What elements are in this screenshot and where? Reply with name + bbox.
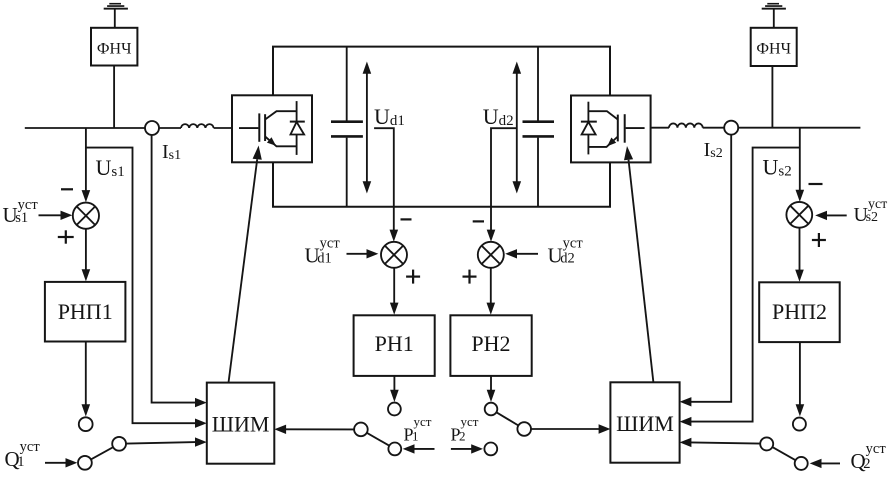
wire L2 to bus end	[703, 127, 861, 129]
switch SW-P2 arm	[496, 412, 518, 425]
low-pass filter FNCH2	[751, 28, 797, 66]
wire Q1 setpoint arrow	[45, 462, 67, 464]
svg-text:ФНЧ: ФНЧ	[97, 40, 132, 57]
wire S4 to RN2	[490, 268, 492, 305]
transistor VT1 emitter	[265, 137, 297, 147]
wire P1 setpoint arrow	[413, 448, 435, 450]
wire Is2 to PWM2 input 1	[691, 135, 732, 402]
wire Us2 branch to PWM2 input 2	[691, 148, 800, 422]
transistor VT2 gate bar	[624, 114, 626, 143]
wire P2 setpoint arrow	[451, 448, 473, 450]
node SW-Q2 common	[760, 437, 773, 450]
wire SW-Q1 to PWM1 input 3	[126, 442, 196, 444]
node Q1 setpoint contact	[78, 456, 92, 470]
plus sign at summing junction S1	[58, 230, 74, 243]
svg-text:РНП2: РНП2	[772, 299, 827, 324]
wire Is1 to PWM1 input 1	[152, 135, 196, 403]
node Q2 setpoint contact	[795, 457, 808, 470]
node RNP2 output contact	[793, 418, 806, 431]
wire AC bus 2	[651, 127, 669, 129]
wire Q2 setpoint arrow	[820, 462, 840, 464]
regulator RNP2	[759, 282, 840, 342]
wire gate drive SHIM2 to VT2	[629, 160, 654, 383]
wire gate drive SHIM1 to VT1	[229, 159, 258, 382]
svg-text:Us2: Us2	[763, 154, 792, 179]
wire GND1 to FNCH1	[114, 9, 116, 27]
summing junction S2	[786, 202, 812, 228]
wire Us1 measurement from bus	[85, 128, 87, 192]
node SW-P2 common	[517, 422, 531, 436]
PWM modulator block SHIM1	[207, 383, 274, 464]
IGBT module VT1	[232, 95, 312, 162]
voltage arrow Ud2	[516, 70, 518, 185]
wire S2 to RNP2	[799, 228, 801, 272]
svg-text:РН2: РН2	[471, 331, 510, 356]
svg-text:Uустs2: Uустs2	[854, 197, 888, 226]
summing junction S3	[381, 242, 407, 268]
svg-text:Ud1: Ud1	[374, 104, 405, 129]
svg-text:Us1: Us1	[96, 155, 125, 180]
wire P bus to PWM1 input 4	[285, 428, 354, 430]
diode VD1	[296, 101, 298, 155]
capacitor C1	[331, 120, 363, 123]
minus sign at summing junction S4	[473, 220, 484, 222]
wire Us1 branch to PWM1 input 2	[86, 148, 196, 424]
transistor VT2 collector	[588, 111, 617, 119]
wire RN2 output	[490, 376, 492, 392]
switch SW-Q2 arm	[772, 447, 795, 460]
node RNP1 output contact	[79, 417, 93, 431]
node RN1 output contact	[388, 403, 401, 416]
capacitor C2 lead bottom	[537, 138, 539, 207]
plus sign at summing junction S4	[463, 270, 477, 284]
svg-text:ШИМ: ШИМ	[616, 411, 674, 436]
wire SW-Q2 to PWM2 input 3	[691, 442, 761, 443]
plus sign at summing junction S3	[406, 270, 420, 284]
svg-text:Qуст1: Qуст1	[5, 439, 41, 471]
wire Ud1 tap to summing junction S3	[374, 128, 394, 232]
svg-text:Pуст2: Pуст2	[451, 414, 479, 444]
transistor VT2 emitter	[588, 137, 617, 147]
low-pass filter FNCH1	[91, 28, 137, 66]
capacitor C1 lead bottom	[346, 138, 348, 207]
minus sign at summing junction S1	[61, 188, 73, 190]
svg-text:Qуст2: Qуст2	[851, 441, 887, 473]
wire AC bus 1	[25, 127, 181, 129]
capacitor C2	[523, 120, 555, 123]
ground GND1 (top left)	[104, 3, 128, 10]
wire Us1 setpoint arrow into S1	[39, 214, 63, 216]
node P1 setpoint contact	[388, 443, 401, 456]
svg-text:Uустd1: Uустd1	[305, 236, 341, 268]
wire GND2 to FNCH2	[773, 9, 775, 27]
svg-text:Uустs1: Uустs1	[3, 197, 39, 227]
wire FNCH2 to AC bus 2	[771, 66, 773, 128]
wire S1 to RNP1	[85, 229, 87, 272]
voltage regulator RN1	[354, 315, 435, 376]
transistor VT1 gate bar	[258, 113, 260, 141]
converter DC-link rectangle	[273, 47, 610, 207]
wire FNCH1 to AC bus 1	[113, 66, 115, 129]
wire Us2 setpoint arrow into S2	[826, 214, 847, 216]
minus sign at summing junction S2	[809, 183, 823, 185]
svg-text:Is1: Is1	[162, 141, 181, 163]
svg-text:ШИМ: ШИМ	[212, 411, 270, 436]
svg-text:РН1: РН1	[375, 331, 414, 356]
wire Us2 measurement from bus	[799, 128, 801, 192]
node RN2 output contact	[485, 403, 498, 416]
wire P bus to PWM2 input 4	[531, 428, 599, 430]
transistor VT1 collector	[265, 111, 297, 119]
svg-text:Is2: Is2	[704, 139, 723, 161]
wire S3 to RN1	[393, 268, 395, 305]
switch SW-Q1 arm	[91, 447, 113, 459]
current sensor Is1	[145, 121, 159, 135]
node SW-P1 common	[354, 423, 368, 437]
minus sign at summing junction S3	[401, 218, 412, 220]
wire L1 to converter box	[214, 127, 232, 129]
summing junction S1	[73, 203, 99, 229]
svg-text:ФНЧ: ФНЧ	[756, 40, 791, 57]
transistor VT2 body bar	[617, 115, 619, 142]
wire RN1 output	[393, 376, 395, 392]
PWM modulator block SHIM2	[610, 382, 679, 462]
capacitor C1 lead top	[346, 47, 348, 121]
summing junction S4	[478, 242, 504, 268]
wire RNP1 output	[85, 342, 87, 407]
diode VD2	[587, 102, 589, 155]
ground GND2 (top right)	[762, 3, 786, 10]
inductor L2	[669, 123, 703, 127]
node P2 setpoint contact	[484, 443, 497, 456]
wire Ud2 setpoint arrow into S4	[516, 253, 539, 255]
current sensor Is2	[724, 121, 738, 135]
wire RNP2 output	[799, 342, 801, 406]
svg-text:Ud2: Ud2	[483, 104, 514, 129]
node SW-Q1 common	[112, 437, 126, 451]
transistor VT1 gate lead	[239, 127, 258, 129]
plus sign at summing junction S2	[812, 233, 826, 247]
switch SW-P1 arm	[367, 433, 390, 446]
transistor VT1 body bar	[264, 114, 266, 141]
svg-text:Pуст1: Pуст1	[404, 414, 432, 444]
wire Ud1 setpoint arrow into S3	[347, 253, 369, 255]
transistor VT2 gate lead	[626, 127, 645, 129]
svg-text:Uустd2: Uустd2	[548, 236, 584, 268]
capacitor C2 lead top	[537, 47, 539, 121]
inductor L1	[181, 124, 214, 128]
IGBT module VT2	[571, 96, 651, 163]
voltage regulator RN2	[450, 315, 531, 376]
svg-text:РНП1: РНП1	[58, 299, 113, 324]
wire Ud2 tap to summing junction S4	[491, 128, 517, 232]
regulator RNP1	[45, 282, 126, 342]
voltage arrow Ud1	[366, 70, 368, 185]
